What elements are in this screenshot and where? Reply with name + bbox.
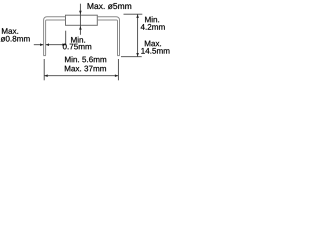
label lead length min line1 — [145, 16, 159, 22]
label body clearance line2 — [63, 44, 91, 50]
label lead span max — [65, 66, 106, 72]
dimension line lead span bottom — [44, 75, 118, 77]
label lead length max line2 — [141, 48, 169, 54]
extension line right lead tip — [117, 59, 119, 80]
wire right lead inner — [97, 20, 117, 55]
wire left lead inner — [46, 20, 66, 55]
extension line from body left edge — [65, 31, 67, 46]
label body clearance line1 — [71, 37, 85, 43]
arrow up at right top — [136, 14, 139, 18]
dimension line lead diameter left tail — [34, 44, 43, 46]
arrow left at bottom span left — [44, 74, 47, 77]
wire right lead outer — [97, 17, 119, 56]
label lead diameter line1 — [2, 28, 18, 34]
label lead diameter line2 — [1, 36, 30, 42]
label lead span min — [65, 56, 106, 62]
label body diameter — [88, 3, 132, 9]
arrow left at lead right edge — [46, 43, 49, 46]
arrow down at right bottom — [136, 53, 139, 57]
wire left lead tip cap — [43, 55, 46, 57]
arrow down at body top — [79, 11, 82, 15]
wire left lead outer — [44, 17, 66, 56]
label lead length max line1 — [145, 41, 161, 47]
dimension line body diameter vertical — [79, 4, 81, 35]
dimension line lead-to-body — [46, 44, 66, 46]
arrow right at lead left edge — [40, 43, 43, 46]
extension line left lead tip — [43, 59, 45, 80]
dimension line lead length vertical — [137, 14, 139, 57]
extension line right top — [124, 13, 143, 15]
wire right lead tip cap — [117, 55, 120, 57]
arrow up at body bottom — [79, 26, 82, 30]
diode body outline — [66, 15, 98, 25]
label lead length min line2 — [141, 24, 165, 30]
arrow right at bottom span right — [115, 74, 118, 77]
arrow right at body extension — [62, 43, 65, 46]
extension line right bottom — [121, 56, 142, 58]
